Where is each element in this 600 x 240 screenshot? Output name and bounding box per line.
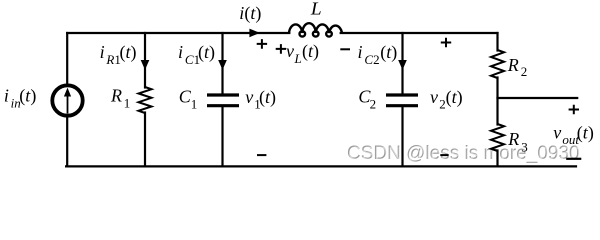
svg-text:v: v [553,123,561,143]
svg-text:3: 3 [521,140,528,155]
svg-text:i: i [100,42,105,62]
svg-text:2: 2 [521,64,528,79]
svg-text:R: R [507,129,519,149]
svg-text:(t): (t) [19,86,36,107]
svg-text:(t): (t) [120,42,137,63]
svg-text:2: 2 [370,97,377,112]
svg-text:1: 1 [124,96,131,111]
svg-text:i(t): i(t) [239,3,261,24]
svg-text:i: i [178,42,183,62]
svg-text:v: v [430,87,438,107]
svg-text:(t): (t) [577,123,594,144]
svg-text:C2: C2 [364,52,379,67]
svg-text:v: v [286,41,294,61]
svg-text:R: R [110,86,122,106]
svg-text:1: 1 [191,97,198,112]
svg-text:L: L [310,0,322,19]
svg-text:v: v [245,87,253,107]
svg-text:(t): (t) [198,42,215,63]
svg-text:(t): (t) [302,41,319,62]
svg-text:CSDN @less is more_0930: CSDN @less is more_0930 [348,144,581,165]
svg-text:i: i [358,42,363,62]
svg-text:R: R [507,55,519,75]
svg-text:i: i [4,86,9,106]
svg-text:(t): (t) [446,87,463,108]
svg-text:L: L [294,51,302,66]
svg-text:(t): (t) [259,87,276,108]
svg-text:(t): (t) [380,42,397,63]
